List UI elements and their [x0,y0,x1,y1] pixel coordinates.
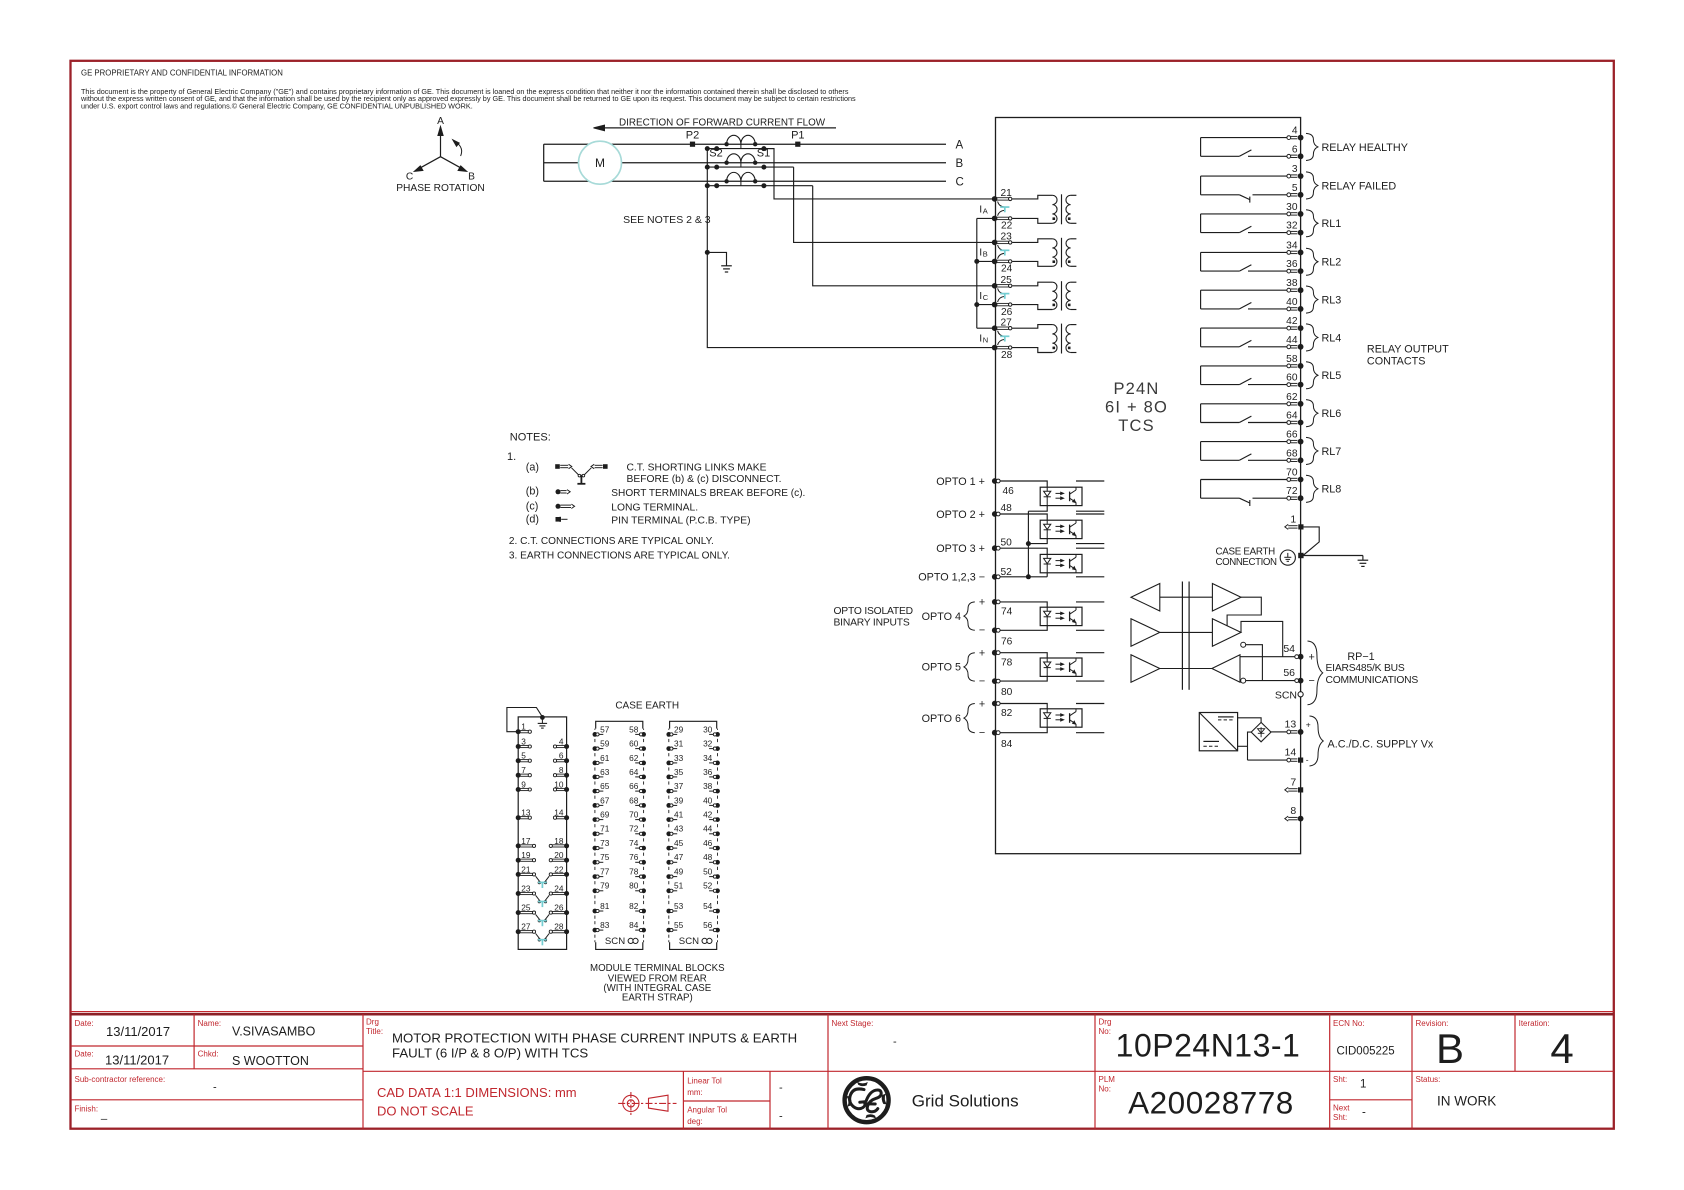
svg-text:A: A [437,116,444,127]
node S1 phase A [761,146,766,151]
svg-text:27: 27 [1001,317,1013,328]
terminal 76 (OPTO 4 -) [992,627,998,633]
svg-text:33: 33 [674,753,684,763]
svg-text:75: 75 [600,852,610,862]
svg-text:RL5: RL5 [1322,370,1342,382]
svg-text:+: + [1306,720,1311,730]
terminal 36 [1287,269,1291,273]
opto coupler OPTO 4 [1040,607,1082,625]
earth strap [507,708,543,732]
svg-text:(b): (b) [526,486,539,498]
svg-text:48: 48 [703,852,713,862]
svg-text:−: − [1309,675,1315,687]
svg-text:-: - [1362,1107,1366,1119]
terminal block bracket top [670,721,717,728]
svg-text:13: 13 [521,808,531,818]
svg-text:48: 48 [1001,503,1013,514]
CT shorting link IC [998,288,1005,294]
svg-text:9: 9 [521,779,526,789]
wire: OPTO 3 anode [1000,548,1047,554]
TB1 terminal 14 [564,815,569,820]
wire: driver enable to 56 line [1246,645,1263,681]
terminal 73 [593,846,598,851]
svg-text:23: 23 [1001,232,1013,243]
svg-text:OPTO 6: OPTO 6 [922,713,961,725]
TB1 terminal 3 [516,744,521,749]
svg-text:58: 58 [629,724,639,734]
CT phase C (primary winding) [727,172,756,181]
svg-text:28: 28 [554,922,564,932]
svg-text:46: 46 [1003,486,1015,497]
svg-text:Iteration:: Iteration: [1519,1019,1550,1028]
svg-text:14: 14 [1285,747,1297,759]
svg-text:74: 74 [629,838,639,848]
svg-text:41: 41 [674,810,684,820]
terminal 27 (IN input +) [992,325,998,331]
terminal 72 [641,831,646,836]
svg-text:−: − [979,675,985,687]
wire: earth branch [707,252,726,265]
wire: phase A S1 to terminal 21 [764,149,995,199]
svg-text:A.C./D.C. SUPPLY Vx: A.C./D.C. SUPPLY Vx [1328,739,1434,751]
svg-text:BEFORE (b) & (c) DISCONNECT.: BEFORE (b) & (c) DISCONNECT. [627,474,782,485]
symbol: first angle projection [618,1092,676,1115]
terminal 28 (IN input -) [992,345,998,351]
svg-text:CASE EARTH: CASE EARTH [615,701,679,712]
junction: rail at OPTO2 cathode [1026,541,1031,546]
svg-text:80: 80 [629,881,639,891]
svg-text:25: 25 [1001,275,1013,286]
svg-text:RP−1: RP−1 [1347,651,1374,663]
terminal 77 [593,874,598,879]
svg-text:Linear Tol: Linear Tol [687,1077,722,1086]
svg-text:NOTES:: NOTES: [510,432,551,444]
terminal 79 [593,888,598,893]
opto coupler OPTO 1 [1040,487,1082,505]
svg-text:3. EARTH CONNECTIONS ARE T: 3. EARTH CONNECTIONS ARE TYPICAL ONLY. [509,550,730,561]
terminal 55 [666,928,671,933]
svg-text:P1: P1 [791,129,804,141]
svg-text:32: 32 [703,739,713,749]
terminal 32 [1287,231,1291,235]
svg-text:66: 66 [629,781,639,791]
svg-text:EIARS485/K BUS: EIARS485/K BUS [1326,663,1405,674]
svg-text:No:: No: [1099,1027,1111,1036]
svg-text:36: 36 [703,767,713,777]
svg-text:79: 79 [600,881,610,891]
terminal 46 [715,846,720,851]
svg-text:45: 45 [674,838,684,848]
TB1 terminal 7 [516,773,521,778]
TB1 terminal 23 [516,891,521,896]
brace: RS485 group [1308,641,1323,705]
svg-text:28: 28 [1001,350,1013,361]
opto coupler OPTO 2 [1040,520,1082,538]
buffer U4 (isolated side) [1212,584,1241,612]
svg-text:-: - [1306,755,1309,765]
svg-text:DO NOT SCALE: DO NOT SCALE [377,1104,474,1119]
svg-text:A: A [956,140,964,152]
terminal 35 [666,775,671,780]
terminal 74 [641,846,646,851]
phase rotation diagram [440,132,442,157]
svg-text:3: 3 [521,736,526,746]
svg-text:22: 22 [554,864,564,874]
svg-text:10: 10 [554,779,564,789]
relay contact RL4 (terminals 42/44) [1201,327,1287,329]
svg-text:43: 43 [674,824,684,834]
svg-text:68: 68 [1286,448,1298,459]
svg-text:49: 49 [674,867,684,877]
relay contact RL7 (terminals 66/68) [1201,441,1287,443]
svg-text:S2: S2 [709,148,722,160]
svg-text:1: 1 [521,722,526,732]
wire: barrier line 1 [1160,596,1213,598]
svg-text:47: 47 [674,852,684,862]
svg-text:58: 58 [1286,354,1298,365]
svg-text:Sht:: Sht: [1333,1075,1347,1084]
terminal 46 (OPTO 1 +) [992,478,998,484]
opto coupler OPTO 5 [1040,658,1082,676]
terminal 38 [1287,288,1291,292]
terminal 44 [1287,345,1291,349]
relay case P24N (main box) [996,118,1301,854]
terminal 32 [715,746,720,751]
svg-text:77: 77 [600,867,610,877]
svg-text:21: 21 [1001,188,1013,199]
terminal 83 [593,928,598,933]
terminal 34 [715,761,720,766]
svg-text:23: 23 [521,883,531,893]
svg-text:81: 81 [600,901,610,911]
svg-text:8: 8 [559,765,564,775]
terminal SCN [1298,692,1303,697]
terminal 4 [1287,136,1291,140]
TB1 terminal 8 [564,773,569,778]
terminal 23 (IB input +) [992,240,998,246]
wire: CT common S2 rail down to terminal 28 [707,149,994,348]
terminal 84 (OPTO 6 -) [992,730,998,736]
svg-text:14: 14 [554,808,564,818]
buffer U3 (tx enable) [1131,655,1160,683]
svg-text:46: 46 [703,838,713,848]
svg-text:52: 52 [1001,567,1013,578]
wire: PSU to rectifier [1238,718,1262,723]
terminal 48 (OPTO 2 +) [992,511,998,517]
svg-text:CONTACTS: CONTACTS [1367,355,1426,367]
terminal 25 (IC input +) [992,283,998,289]
transformer T2 (IB input CT) [1012,239,1052,243]
TB1 terminal 9 [516,787,521,792]
svg-text:56: 56 [703,920,713,930]
wire: OPTO 3 cathode [1046,573,1048,577]
motor M [579,141,622,184]
svg-text:72: 72 [1286,486,1298,497]
terminal 81 [593,909,598,914]
title block [71,1011,1614,1013]
svg-text:OPTO ISOLATED: OPTO ISOLATED [834,606,913,617]
svg-text:52: 52 [703,881,713,891]
svg-text:1: 1 [1360,1079,1366,1091]
svg-text:Status:: Status: [1416,1075,1441,1084]
terminal 58 [641,732,646,737]
terminal 22 (IA input -) [992,216,998,222]
wire: rectifier - to terminal 14 [1248,759,1287,761]
wire: OPTO 4 outputs [1076,601,1104,603]
svg-text:B: B [956,158,964,170]
node S2 phase C [714,183,719,188]
svg-text:TCS: TCS [1118,417,1155,435]
svg-text:RL6: RL6 [1322,408,1342,420]
svg-text:13/11/2017: 13/11/2017 [105,1052,169,1067]
terminal 60 [1287,383,1291,387]
svg-text:22: 22 [1001,221,1013,232]
svg-text:ECN No:: ECN No: [1333,1019,1365,1028]
node S2 phase B [714,165,719,170]
svg-text:67: 67 [600,795,610,805]
svg-text:I: I [979,290,982,302]
svg-text:83: 83 [600,920,610,930]
svg-text:+: + [979,648,985,660]
svg-text:82: 82 [629,901,639,911]
terminal 38 [715,789,720,794]
svg-text:38: 38 [1286,278,1298,289]
svg-text:80: 80 [1001,687,1013,698]
svg-text:6: 6 [559,751,564,761]
svg-text:10P24N13-1: 10P24N13-1 [1116,1028,1301,1064]
terminal 62 [641,761,646,766]
buffer U2 (tx data) [1131,619,1160,647]
wire: U4 output loop [1227,597,1261,625]
terminal 74 (OPTO 4 +) [992,599,998,605]
svg-text:63: 63 [600,767,610,777]
TB1 terminal 25 [516,910,521,915]
wire: OPTO 5 anode [1000,653,1047,658]
svg-text:5: 5 [521,751,526,761]
svg-text:OPTO 4: OPTO 4 [922,611,961,623]
wire: OPTO 2 cathode [1028,539,1047,544]
terminal 40 [1287,307,1291,311]
svg-text:Name:: Name: [198,1019,222,1028]
svg-text:C.T. SHORTING LINKS MAKE: C.T. SHORTING LINKS MAKE [627,462,767,473]
wire: OPTO 2 outputs [1076,513,1104,515]
svg-text:72: 72 [629,824,639,834]
svg-text:Next Stage:: Next Stage: [832,1019,874,1028]
wire: OPTO 6 cathode [1000,727,1047,733]
svg-text:26: 26 [1001,307,1013,318]
terminal 50 (OPTO 3 +) [992,545,998,551]
svg-text:P2: P2 [686,129,699,141]
svg-text:44: 44 [1286,335,1298,346]
svg-text:18: 18 [554,836,564,846]
CT shorting link IA [998,202,1005,208]
wire: OPTO 2 anode [1000,514,1047,520]
terminal 52 (OPTO 1,2,3 -) [992,574,998,580]
wire: OPTO 1 outputs [1076,480,1104,482]
svg-text:M: M [595,156,605,170]
transformer T3 (IC input CT) [1012,282,1052,286]
wire: terminals 22/24/26 common bus to 27 [976,218,978,328]
svg-text:COMMUNICATIONS: COMMUNICATIONS [1326,675,1419,686]
relay contact RELAY FAILED (terminals 3/5) [1201,175,1287,177]
svg-text:17: 17 [521,836,531,846]
svg-text:19: 19 [521,850,531,860]
wire: phase B [544,162,946,164]
svg-text:P24N: P24N [1113,380,1159,398]
svg-text:Next: Next [1333,1104,1350,1113]
terminal 78 [641,874,646,879]
svg-text:S WOOTTON: S WOOTTON [232,1054,309,1068]
svg-text:CASE EARTH: CASE EARTH [1216,547,1276,558]
svg-text:B: B [468,172,475,183]
svg-text:−: − [979,727,985,739]
terminal 47 [666,860,671,865]
svg-text:74: 74 [1001,607,1013,618]
svg-text:-: - [893,1036,897,1048]
wire: phase A [544,143,946,145]
svg-text:42: 42 [703,810,713,820]
svg-text:C: C [406,172,413,183]
svg-text:51: 51 [674,881,684,891]
terminal 70 [641,817,646,822]
svg-text:V.SIVASAMBO: V.SIVASAMBO [232,1024,316,1038]
terminal 82 (OPTO 6 +) [992,701,998,707]
svg-text:under U.S. export control laws: under U.S. export control laws and regul… [81,101,473,110]
svg-text:RL1: RL1 [1322,218,1342,230]
svg-text:I: I [979,333,982,345]
symbol: protective earth circle [1280,550,1295,565]
terminal 14 [1287,758,1291,762]
terminal 53 [666,909,671,914]
terminal 26 (IC input -) [992,302,998,308]
terminal 42 [1287,326,1291,330]
CT phase B secondary wire S2-S1 [707,166,793,168]
CT phase C secondary wire S2-S1 [707,185,812,187]
svg-text:OPTO 3 +: OPTO 3 + [936,543,985,555]
svg-text:6I + 8O: 6I + 8O [1105,399,1168,417]
terminal 82 [641,909,646,914]
TB1 terminal 24 [564,891,569,896]
terminal 8 [1288,816,1297,818]
svg-text:25: 25 [521,903,531,913]
wire: rectifier + to terminal 13 [1271,731,1287,733]
svg-text:MODULE TERMINAL BLOCKS: MODULE TERMINAL BLOCKS [590,963,725,974]
svg-text:C: C [983,293,989,302]
wire: phase C [544,180,946,182]
svg-text:Sub-contractor reference:: Sub-contractor reference: [75,1075,166,1084]
svg-text:26: 26 [554,903,564,913]
transformer T1 (IA input CT) [1012,195,1052,199]
node P1 [795,142,800,147]
terminal 7 [1288,788,1297,790]
ground (CT earth) [721,265,732,267]
wire: barrier line 3 [1160,668,1212,670]
svg-text:78: 78 [1001,657,1013,668]
svg-text:(d): (d) [526,514,539,526]
TB1 terminal 5 [516,758,521,763]
terminal 60 [641,746,646,751]
svg-text:-: - [779,1111,783,1123]
svg-text:54: 54 [703,901,713,911]
terminal 65 [593,789,598,794]
TB1 terminal 10 [564,787,569,792]
isolation barrier [1181,582,1183,690]
wire: OPTO 4 anode [1000,602,1047,607]
svg-text:6: 6 [1292,144,1298,155]
svg-text:PLM: PLM [1099,1075,1116,1084]
TB1 terminal 17 [516,843,521,848]
power supply unit (DC/DC converter) [1199,713,1237,751]
svg-text:20: 20 [554,850,564,860]
terminal 42 [715,817,720,822]
svg-text:LONG TERMINAL.: LONG TERMINAL. [611,503,698,514]
relay contact RELAY HEALTHY (terminals 4/6) [1201,137,1287,139]
svg-text:24: 24 [1001,264,1013,275]
svg-text:RELAY FAILED: RELAY FAILED [1322,180,1397,192]
svg-text:68: 68 [629,795,639,805]
TB1 terminal 27 [516,929,521,934]
terminal 61 [593,761,598,766]
svg-text:BINARY INPUTS: BINARY INPUTS [834,618,910,629]
svg-text:CID005225: CID005225 [1337,1046,1395,1058]
TB1 terminal 1 [516,729,521,734]
opto coupler OPTO 6 [1040,709,1082,727]
terminal 54 [1298,654,1304,660]
transformer T4 (IN input CT) [1012,325,1052,329]
svg-text:RL7: RL7 [1322,446,1342,458]
svg-text:40: 40 [1286,297,1298,308]
terminal 57 [593,732,598,737]
svg-text:37: 37 [674,781,684,791]
terminal 3 [1287,174,1291,178]
wire: OPTO 4 cathode [1000,626,1047,631]
svg-text:OPTO 2 +: OPTO 2 + [936,509,985,521]
wire: terminal 56 bus - [1246,680,1298,682]
svg-text:76: 76 [629,852,639,862]
bridge rectifier D1 [1251,722,1271,741]
terminal 66 [641,789,646,794]
svg-text:OPTO 1,2,3 −: OPTO 1,2,3 − [918,572,985,584]
svg-text:66: 66 [1286,430,1298,441]
svg-text:Finish:: Finish: [75,1105,99,1114]
svg-text:4: 4 [559,736,564,746]
terminal 37 [666,789,671,794]
svg-text:Drg: Drg [1099,1018,1112,1027]
terminal 49 [666,874,671,879]
terminal 62 [1287,402,1291,406]
RS485 receiver U6 [1212,655,1240,683]
CT phase B (primary winding) [727,154,756,163]
terminal 68 [641,803,646,808]
terminal 39 [666,803,671,808]
terminal 75 [593,860,598,865]
svg-text:8: 8 [1290,805,1296,817]
svg-text:84: 84 [1001,739,1013,750]
svg-text:S1: S1 [757,148,770,160]
terminal 44 [715,831,720,836]
terminal 63 [593,775,598,780]
TB1 shorting link at row 893.5 [536,895,540,901]
TB1 terminal 21 [516,872,521,877]
terminal 80 (OPTO 5 -) [992,678,998,684]
svg-text:RELAY HEALTHY: RELAY HEALTHY [1322,142,1408,154]
wire: OPTO 6 outputs [1076,703,1104,705]
svg-text:56: 56 [1283,667,1295,679]
svg-text:71: 71 [600,824,610,834]
svg-text:1.: 1. [507,451,516,463]
terminal 64 [641,775,646,780]
svg-text:RL8: RL8 [1322,484,1342,496]
